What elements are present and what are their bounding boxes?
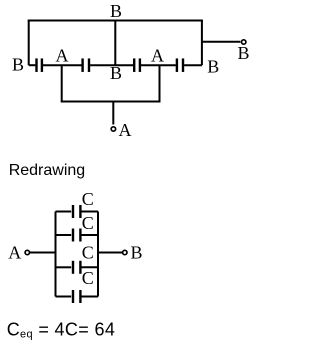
wire left edge vertical [28, 21, 30, 66]
svg-text:B: B [110, 63, 122, 83]
wire branch 2 right [81, 234, 98, 236]
wire left drop [61, 65, 63, 101]
wire branch 4 left [56, 296, 72, 298]
wire branch 4 right [81, 296, 98, 298]
svg-text:B: B [130, 242, 142, 262]
terminal A open circle (redrawn) [25, 250, 29, 254]
capacitor C1 plates [72, 205, 74, 218]
svg-text:C: C [82, 189, 94, 209]
wire branch 2 left [56, 234, 72, 236]
svg-text:A: A [151, 45, 164, 65]
wire right drop [159, 65, 161, 101]
wire top horizontal [28, 20, 203, 22]
svg-text:B: B [110, 1, 122, 21]
terminal B open circle [242, 40, 246, 44]
terminal B open circle (redrawn) [123, 250, 127, 254]
wire row segment 5 [184, 64, 202, 66]
capacitor 4 plates (top row, right) [176, 58, 178, 71]
svg-text:C: C [82, 213, 94, 233]
capacitor 2 plates (top row) [81, 58, 83, 71]
wire tap to terminal A [112, 102, 114, 125]
wire row segment 3 [90, 64, 133, 66]
svg-text:A: A [119, 120, 132, 140]
terminal A open circle [111, 127, 115, 131]
svg-text:B: B [207, 57, 219, 77]
capacitor C4 plates [72, 290, 74, 303]
wire right edge vertical [201, 21, 203, 66]
svg-text:A: A [56, 45, 69, 65]
wire branch 1 left [56, 211, 72, 213]
wire left rail [55, 212, 57, 297]
svg-text:Ceq = 4C= 64: Ceq = 4C= 64 [7, 319, 116, 340]
wire to terminal B [98, 252, 122, 254]
svg-text:C: C [82, 242, 94, 262]
svg-text:B: B [237, 43, 249, 63]
svg-text:Redrawing: Redrawing [9, 162, 85, 179]
capacitor C2 plates [72, 229, 74, 242]
wire branch 3 right [81, 266, 98, 268]
svg-text:A: A [8, 242, 21, 262]
wire middle vertical (node B) [114, 21, 116, 66]
wire row segment 1 [29, 64, 36, 66]
wire right rail [97, 212, 99, 297]
capacitor C3 plates [72, 261, 74, 274]
wire branch 1 right [81, 211, 98, 213]
wire bottom horizontal [61, 101, 161, 103]
wire stub to terminal B [202, 41, 241, 43]
capacitor 1 plates (top row, left) [35, 58, 37, 71]
capacitor 3 plates (top row) [133, 58, 135, 71]
wire from terminal A [30, 252, 56, 254]
svg-text:C: C [82, 268, 94, 288]
wire branch 3 left [56, 266, 72, 268]
svg-text:B: B [12, 54, 24, 74]
wire row segment 2 [43, 64, 82, 66]
wire row segment 4 [141, 64, 176, 66]
